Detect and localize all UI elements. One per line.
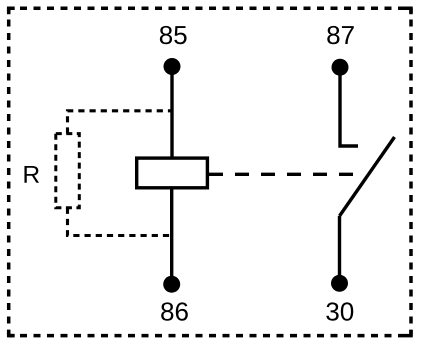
- wire coil to 86: [170, 188, 173, 284]
- wire armature to 30: [338, 216, 341, 283]
- wire resistor top lead (dashed): [68, 111, 173, 134]
- wire 87 to fixed contact: [340, 67, 358, 146]
- coil L1: [137, 158, 208, 188]
- pin label 86: [161, 302, 188, 320]
- border corner bottom-left: [9, 330, 15, 336]
- relay case outline top edge (dashed border): [9, 6, 411, 10]
- terminal 87: [332, 59, 349, 76]
- label R: [24, 166, 39, 183]
- pin label 87: [327, 26, 353, 44]
- resistor R (dashed suppression resistor body): [56, 134, 80, 208]
- pin label 85: [160, 26, 187, 44]
- border corner top-left: [9, 8, 15, 14]
- terminal 30: [331, 275, 348, 292]
- switch armature blade: [340, 137, 395, 216]
- relay case outline left edge (dashed border): [7, 8, 11, 335]
- relay case outline bottom edge (dashed border): [9, 334, 411, 338]
- pin label 30: [326, 302, 353, 320]
- actuator linkage (dashed) from coil to armature: [209, 173, 356, 176]
- border corner bottom-right: [405, 330, 411, 336]
- terminal 86: [163, 276, 180, 293]
- wire 85 to coil: [170, 67, 173, 158]
- border corner top-right: [405, 8, 411, 14]
- wire resistor bottom lead (dashed): [68, 208, 173, 236]
- relay case outline right edge (dashed border): [409, 8, 413, 335]
- terminal 85: [164, 58, 181, 75]
